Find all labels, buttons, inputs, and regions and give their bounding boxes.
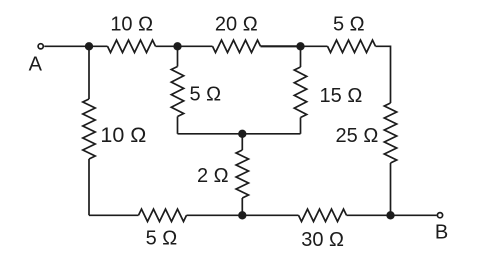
wire bottom middle — [187, 214, 299, 216]
terminal A — [38, 44, 43, 49]
svg-text:10 Ω: 10 Ω — [100, 123, 146, 147]
wire 15ohm to mid rail — [300, 118, 302, 134]
wire bottom-left — [89, 214, 139, 216]
svg-text:A: A — [29, 54, 43, 76]
junction node 3 — [296, 42, 304, 50]
wire top-right corner — [376, 46, 391, 103]
junction node B side — [386, 211, 394, 219]
svg-text:30 Ω: 30 Ω — [301, 229, 344, 251]
resistor 20 ohm — [213, 40, 261, 52]
wire node3 down — [300, 46, 302, 67]
svg-text:15 Ω: 15 Ω — [320, 85, 363, 107]
svg-text:25 Ω: 25 Ω — [336, 125, 379, 147]
resistor 5 ohm middle — [171, 67, 183, 117]
wire node1 down — [88, 46, 90, 99]
resistor 5 ohm bottom — [139, 209, 187, 221]
svg-text:5 Ω: 5 Ω — [333, 14, 365, 36]
svg-text:10 Ω: 10 Ω — [110, 14, 153, 36]
resistor 30 ohm — [299, 209, 347, 221]
junction node 2 — [173, 42, 181, 50]
junction bottom node — [238, 211, 246, 219]
resistor 10 ohm top — [108, 40, 156, 52]
wire 25ohm to node B-junction — [390, 163, 392, 215]
wire A to node1 — [44, 45, 107, 47]
svg-text:20 Ω: 20 Ω — [215, 14, 258, 36]
svg-text:5 Ω: 5 Ω — [146, 228, 178, 250]
wire 5ohm-mid to mid rail — [177, 117, 179, 134]
wire middle rail — [178, 133, 301, 135]
resistor 15 ohm — [294, 67, 306, 118]
resistor 25 ohm — [384, 103, 396, 163]
wire mid node down — [241, 134, 243, 150]
terminal B — [437, 213, 442, 218]
wire node3 to 5ohm top — [301, 45, 328, 47]
junction node 1 — [85, 42, 93, 50]
svg-text:B: B — [435, 222, 448, 244]
resistor 10 ohm left — [83, 99, 95, 159]
resistor 5 ohm top — [328, 40, 376, 52]
wire node1-resistor to node2 — [156, 45, 213, 47]
svg-text:2 Ω: 2 Ω — [197, 165, 229, 187]
junction mid node — [238, 130, 246, 138]
wire 10ohm-left to bottom rail — [88, 159, 90, 215]
wire 30ohm to terminal B — [347, 214, 437, 216]
svg-text:5 Ω: 5 Ω — [189, 84, 221, 106]
resistor 2 ohm — [236, 150, 248, 198]
wire node2 down — [177, 46, 179, 66]
wire 2ohm to bottom rail — [241, 198, 243, 215]
wire 20ohm to node3 (heavier) — [261, 45, 301, 47]
